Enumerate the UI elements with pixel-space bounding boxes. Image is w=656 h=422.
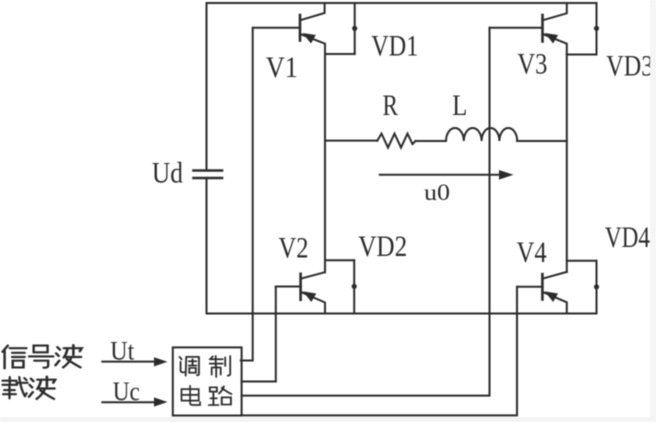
diode VD4 loop <box>567 261 599 314</box>
svg-text:VD1: VD1 <box>371 30 418 63</box>
bottom gray strip <box>0 417 656 422</box>
svg-text:VD2: VD2 <box>358 230 407 263</box>
wire V2 base riser <box>242 287 276 382</box>
resistor R <box>377 134 415 148</box>
label 电路 (circuit) <box>181 386 231 405</box>
label 载波 (carrier wave) <box>2 377 55 399</box>
transistor V4 <box>517 272 567 314</box>
wire load middle <box>416 140 447 142</box>
modulation circuit box <box>173 347 242 415</box>
svg-text:Ud: Ud <box>152 157 183 190</box>
diode VD3 loop <box>567 3 599 55</box>
transistor V3 <box>490 3 567 55</box>
svg-text:VD3: VD3 <box>606 50 653 83</box>
wire left DC bus upper <box>206 3 208 170</box>
svg-text:V3: V3 <box>517 48 547 81</box>
wire V4 base riser <box>242 287 517 416</box>
diode VD2 loop <box>325 260 357 313</box>
label 调制 (modulation) <box>180 356 231 377</box>
svg-text:V1: V1 <box>266 51 298 84</box>
arrow Ut <box>102 357 167 366</box>
arrow Uc <box>102 397 167 406</box>
transistor V2 <box>276 272 325 313</box>
wire V1 base riser <box>241 28 253 361</box>
svg-text:Uc: Uc <box>113 377 140 406</box>
svg-text:V4: V4 <box>517 236 547 269</box>
capacitor Ud <box>194 171 223 179</box>
wire left bridge midpoint <box>324 54 326 272</box>
wire top rail <box>207 2 597 4</box>
right gray strip <box>650 0 656 417</box>
label 信号波 (signal wave) <box>3 345 82 368</box>
svg-text:V2: V2 <box>279 232 309 265</box>
wire V3 base riser <box>242 28 490 396</box>
arrow u0 <box>380 170 514 180</box>
svg-text:R: R <box>382 89 398 122</box>
wire load left <box>325 140 377 142</box>
wire left DC bus lower <box>206 178 208 314</box>
svg-text:VD4: VD4 <box>605 221 650 254</box>
svg-text:Ut: Ut <box>110 337 135 366</box>
diode VD1 loop <box>325 3 357 54</box>
transistor V1 <box>254 3 326 54</box>
wire load right <box>517 140 567 142</box>
svg-text:L: L <box>452 89 467 122</box>
svg-text:u0: u0 <box>424 180 450 205</box>
inductor L <box>446 128 517 141</box>
wire right bridge midpoint <box>566 55 568 272</box>
wire bottom rail <box>207 313 597 315</box>
